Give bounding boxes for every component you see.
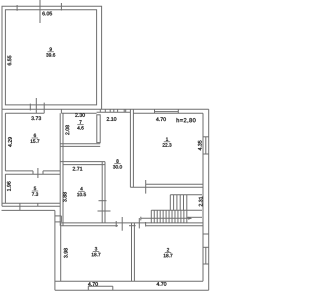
staircase direction arrow — [141, 217, 192, 220]
room 6 label — [31, 134, 40, 143]
porch step tick — [19, 206, 21, 210]
dim 1.96 room5 left — [7, 181, 11, 190]
room 4 top wall line a — [60, 161, 105, 163]
room 2 label — [164, 248, 173, 257]
dim 6.55 room9 left — [8, 56, 12, 66]
room 9 veranda inner walls — [5, 10, 96, 105]
window room1 right mid line — [205, 137, 207, 154]
staircase upper flight treads — [170, 195, 187, 210]
window room1 cap right — [177, 109, 179, 113]
door jamb room5 left — [32, 171, 34, 174]
bottom band top wall line a — [61, 222, 203, 224]
window room1 right cap top — [203, 136, 209, 138]
main top wall inner left segment — [5, 112, 44, 114]
room 4 label — [77, 187, 86, 196]
dim 3.73 room6 top — [31, 116, 41, 120]
crease line top — [39, 0, 41, 23]
wall room6/5 upper line — [5, 170, 60, 172]
dim 2.08 room7 left — [65, 125, 69, 135]
left wall inner lower — [4, 174, 6, 203]
left wall inner upper — [4, 113, 6, 171]
tick on room 9 top wall — [60, 3, 62, 11]
staircase upper flight top edge — [170, 194, 202, 196]
door jamb room5 right — [42, 171, 44, 174]
room5 bottom wall line b — [2, 205, 60, 207]
room 7 label — [77, 120, 83, 129]
window room2 right cap top — [203, 246, 209, 248]
dim 4.70 room3 bottom — [88, 282, 98, 286]
window room1 cap left — [154, 109, 156, 113]
staircase lower flight treads — [151, 210, 187, 223]
door jamb tick room1 — [145, 180, 147, 194]
left wall outer — [1, 109, 3, 206]
main top wall outer line — [2, 108, 209, 110]
bottom wall outer — [55, 289, 209, 291]
chimney box top — [55, 215, 62, 217]
room 5 label — [32, 187, 38, 196]
left inner wall bottom band — [60, 223, 62, 281]
room1 left wall line a — [129, 109, 131, 187]
window tick room9 bottom wall — [29, 104, 31, 111]
left outer wall bottom band — [54, 211, 56, 291]
chimney box bottom — [55, 221, 62, 223]
room 4 right wall line b — [104, 162, 106, 223]
door jamb room6 right — [60, 109, 62, 113]
dim 4.70 room1 top — [156, 117, 166, 121]
room 9 veranda outer walls — [2, 6, 102, 109]
window room3 bottom inner line — [88, 285, 113, 287]
partition room3/2 line a — [131, 223, 133, 281]
door jamb room2 right — [145, 222, 147, 227]
staircase landing step line — [187, 216, 202, 218]
tick on room4 right wall upper — [99, 200, 107, 202]
staircase arrow start tick — [140, 217, 142, 221]
window room2 right cap bottom — [203, 263, 209, 265]
staircase divider line — [151, 209, 202, 211]
door leaf room5 — [37, 168, 39, 178]
door jamb room9/room6 — [43, 103, 45, 114]
window room8 lower line — [97, 111, 131, 113]
window room3 bottom cap left — [87, 286, 89, 290]
door leaf room2 — [138, 218, 140, 228]
room 8 label — [113, 159, 122, 168]
bottom wall inner — [55, 280, 203, 282]
top wall inner room1 segment — [133, 112, 203, 114]
window room1 right cap bottom — [203, 153, 209, 155]
partition room3/2 line b — [133, 223, 135, 281]
room5 bottom wall line a — [2, 202, 60, 204]
right wall outer — [208, 109, 210, 290]
room 7 bottom wall line b — [60, 145, 100, 147]
wall room6/5 lower line — [5, 173, 60, 175]
window room8 mullion ticks — [100, 109, 125, 112]
room 7 right wall — [97, 115, 100, 143]
partition wall line a — [59, 113, 61, 226]
dim 2.31 staircase — [199, 197, 203, 207]
porch edge — [2, 209, 55, 211]
main top wall inner mid segment — [61, 112, 96, 114]
room 4 top wall line b — [63, 164, 105, 166]
room1 bottom wall lower line — [130, 186, 203, 188]
room 1 label — [163, 137, 172, 146]
room1 bottom wall upper line — [146, 183, 203, 185]
window room5 cap right — [37, 203, 39, 206]
room 9 label — [46, 47, 55, 56]
dim 4.29 room6 left — [8, 137, 12, 147]
room 7 bottom wall line a — [60, 143, 100, 145]
dim 3.98 room3 left — [64, 248, 68, 258]
dim 4.35 room1 right — [198, 141, 202, 151]
dim 2.71 room4 top — [73, 167, 83, 171]
window room5 cap left — [19, 203, 21, 206]
door jamb tick room3 left — [115, 221, 117, 227]
window room2 right mid line — [205, 247, 207, 264]
door leaf room3 — [121, 217, 123, 231]
room 4 right wall line a — [101, 162, 103, 223]
window room 1 top inner line — [155, 111, 179, 113]
window mullion room9 bottom wall — [35, 98, 37, 113]
dim 2.30 room7 top — [75, 113, 85, 117]
height note h=2,80 — [177, 118, 196, 123]
room 3 label — [92, 247, 101, 256]
dim 6.05 room9 top — [42, 12, 52, 16]
tick on room4 right wall lower — [98, 210, 111, 212]
right wall stub at stair landing — [203, 233, 209, 235]
chimney box right side — [60, 216, 62, 222]
room1 left wall line b — [132, 109, 134, 187]
tick on room 9 top wall left — [16, 5, 18, 11]
dim 4.70 room2 bottom — [157, 282, 167, 286]
dim 2.10 room8 window — [107, 117, 117, 121]
bottom band top wall line b — [61, 225, 203, 227]
partition wall line b — [62, 113, 64, 226]
right wall inner — [202, 113, 204, 281]
window room3 bottom cap right — [112, 286, 114, 290]
dim 3.88 room4 left — [63, 192, 67, 202]
